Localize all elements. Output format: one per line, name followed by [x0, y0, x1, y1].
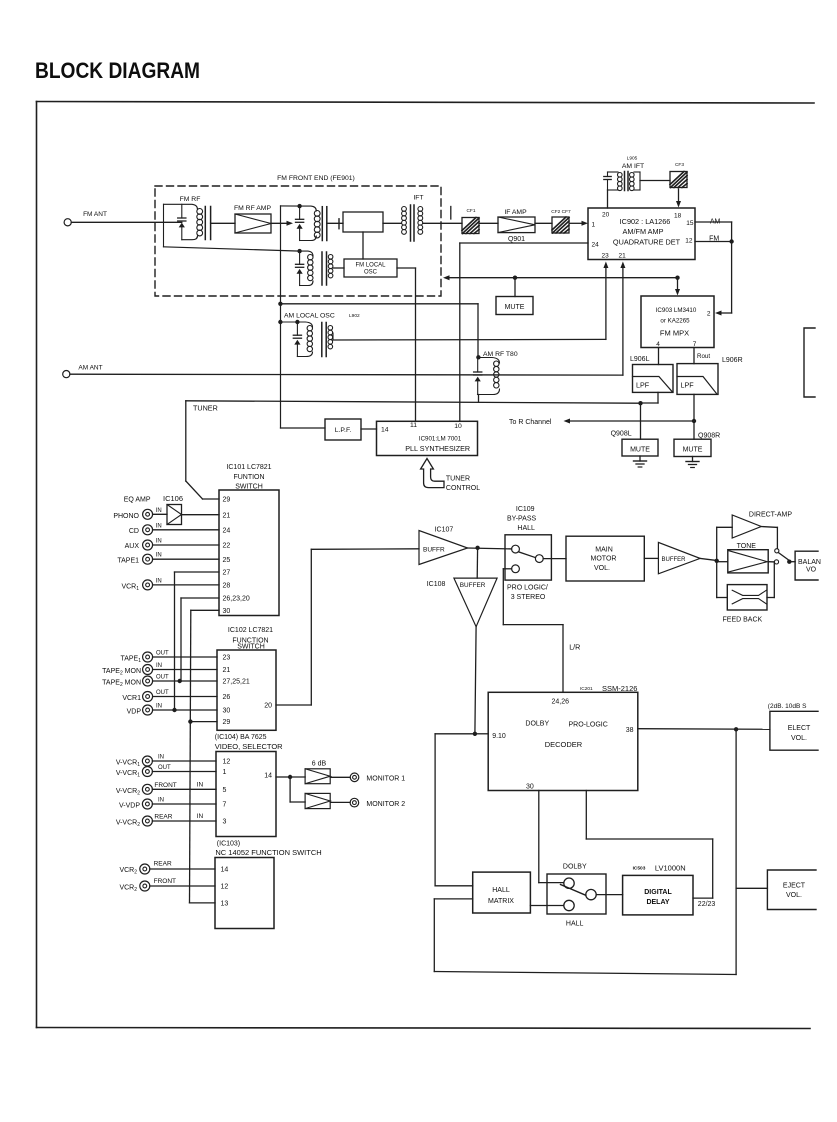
svg-text:EJECT: EJECT	[783, 882, 806, 889]
wire down to IC903 with arrow	[677, 278, 679, 291]
svg-text:VOL.: VOL.	[791, 735, 807, 742]
svg-text:AUX: AUX	[125, 543, 140, 550]
core bars AM LOCAL OSC	[321, 323, 323, 357]
svg-text:3: 3	[223, 819, 227, 826]
svg-text:TUNER: TUNER	[446, 476, 470, 483]
svg-text:20: 20	[264, 703, 272, 710]
TUNER CONTROL arrow	[421, 459, 444, 488]
svg-text:IN: IN	[156, 539, 162, 545]
IC903 FM MPX box	[641, 296, 714, 348]
svg-text:IN: IN	[158, 755, 164, 761]
svg-text:Q908R: Q908R	[698, 433, 720, 440]
wire IC902 pin23 to AM LOCAL OSC	[605, 265, 607, 339]
svg-text:REAR: REAR	[154, 814, 172, 821]
svg-text:OUT: OUT	[156, 690, 169, 696]
wire FM ANT to FM RF tank	[71, 221, 182, 223]
wire CF2 to IC902 pin1 with arrow	[570, 222, 584, 224]
svg-text:OSC: OSC	[364, 270, 378, 276]
svg-text:OUT: OUT	[156, 675, 169, 681]
FEED BACK loop wires	[716, 561, 718, 598]
wire tank2 to mixer box	[327, 222, 343, 224]
wire decoder pin38 to ELECT VOL	[638, 728, 770, 731]
svg-text:21: 21	[223, 513, 231, 520]
svg-text:23: 23	[602, 253, 610, 260]
svg-text:21: 21	[223, 667, 231, 674]
svg-text:IN: IN	[197, 782, 204, 789]
ground Q908L	[639, 456, 641, 461]
wire VDP in	[153, 709, 217, 711]
svg-text:To R Channel: To R Channel	[509, 419, 552, 426]
partial box right edge	[804, 328, 815, 397]
coupling cap tank2 out	[338, 219, 340, 229]
wire node to HALL MATRIX input1	[435, 733, 475, 735]
jack MONITOR 2	[350, 798, 359, 807]
svg-text:MAIN: MAIN	[595, 547, 613, 554]
svg-text:MUTE: MUTE	[683, 447, 703, 454]
svg-text:DIRECT-AMP: DIRECT-AMP	[749, 512, 793, 519]
svg-text:FM LOCAL: FM LOCAL	[355, 263, 386, 269]
stray mark near CF1	[450, 207, 452, 220]
svg-text:7: 7	[693, 341, 697, 348]
wire VCR2 rear to pin14	[150, 868, 215, 870]
wire FM RF AMP to tank2 with arrow	[271, 222, 289, 224]
IC902 LA1266 AM/FM AMP box	[588, 208, 695, 260]
svg-text:EQ AMP: EQ AMP	[124, 497, 151, 504]
svg-text:IC903 LM3410: IC903 LM3410	[656, 307, 697, 314]
svg-text:HALL: HALL	[492, 887, 510, 894]
wire V-VCR2 front	[152, 788, 216, 790]
svg-text:FEED BACK: FEED BACK	[723, 617, 763, 624]
svg-text:12: 12	[223, 759, 231, 766]
svg-text:LV1000N: LV1000N	[655, 864, 686, 873]
svg-text:IC503: IC503	[633, 865, 646, 871]
wire TAPE2 MON out	[153, 680, 217, 682]
svg-text:22: 22	[223, 543, 231, 550]
svg-text:38: 38	[626, 727, 634, 734]
svg-text:NC 14052 FUNCTION SWITCH: NC 14052 FUNCTION SWITCH	[215, 848, 321, 857]
wire IF AMP to CF2	[535, 222, 552, 224]
wire HALL MATRIX out	[530, 905, 563, 907]
svg-text:24: 24	[592, 242, 600, 249]
wire IC107 out to IC109	[468, 547, 512, 550]
svg-text:PHONO: PHONO	[113, 513, 139, 520]
svg-text:IC109: IC109	[516, 506, 535, 513]
svg-text:BUFFER: BUFFER	[662, 557, 687, 563]
svg-text:23: 23	[223, 655, 231, 662]
svg-text:IC902 : LA1266: IC902 : LA1266	[620, 217, 671, 226]
svg-text:FRONT: FRONT	[154, 878, 176, 885]
svg-text:REAR: REAR	[154, 861, 172, 868]
wire AM ANT to IC902 pin21	[70, 373, 623, 376]
svg-text:26: 26	[223, 694, 231, 701]
wire PHONO to IC106	[153, 513, 167, 515]
svg-text:28: 28	[223, 583, 231, 590]
svg-text:MUTE: MUTE	[505, 304, 525, 311]
svg-text:DELAY: DELAY	[646, 899, 669, 906]
svg-text:IC107: IC107	[435, 527, 454, 534]
switch lever dolby	[561, 885, 586, 896]
secondary coil AM LOCAL OSC	[328, 326, 333, 331]
wire tank3 to FM LOCAL OSC	[333, 267, 344, 269]
svg-text:FM FRONT END (FE901): FM FRONT END (FE901)	[277, 175, 355, 182]
svg-text:22/23: 22/23	[698, 901, 716, 908]
svg-text:1: 1	[592, 222, 596, 229]
svg-text:ELECT: ELECT	[788, 725, 811, 732]
FEED BACK box	[727, 585, 767, 610]
wire IC109 common to MAIN MOTOR VOL	[543, 558, 566, 560]
svg-text:VCR1: VCR1	[122, 695, 141, 702]
svg-text:27,25,21: 27,25,21	[223, 679, 250, 686]
wire TAPE1 to pin25	[153, 558, 219, 560]
wire pin29	[190, 721, 217, 723]
svg-text:VIDEO, SELECTOR: VIDEO, SELECTOR	[215, 742, 283, 751]
svg-text:24,26: 24,26	[552, 699, 570, 706]
EJECT VOL box	[767, 870, 816, 910]
svg-text:IC108: IC108	[427, 581, 446, 588]
svg-text:12: 12	[685, 238, 693, 245]
wire LPF to PLL pin14	[361, 428, 377, 430]
svg-text:FM ANT: FM ANT	[83, 211, 107, 218]
svg-text:BUFFER: BUFFER	[460, 582, 486, 589]
wire FM out down to IC903 pin2	[731, 242, 733, 314]
svg-text:L906L: L906L	[630, 356, 650, 363]
svg-text:IN: IN	[156, 579, 162, 585]
wire MAIN VOL to buffer	[644, 557, 658, 559]
wire AUX to pin22	[153, 544, 219, 546]
svg-text:TAPE1: TAPE1	[117, 558, 139, 565]
wire pin27 to VDP bus	[175, 571, 220, 573]
wire TAPE2 MON in	[153, 669, 217, 671]
BALANCE VOL box (cut)	[795, 551, 818, 580]
svg-text:(IC104) BA 7625: (IC104) BA 7625	[215, 734, 267, 741]
wire VCR1 to pin28	[153, 584, 219, 586]
wire down to monitor2 amp	[289, 777, 291, 802]
wire TAPE1 out	[153, 656, 217, 658]
TUNER wire down to IC101 pin29	[185, 401, 187, 481]
wire IC104 pin14 to monitor amps	[276, 776, 290, 778]
svg-text:OUT: OUT	[158, 765, 171, 771]
wire mixer to FM LOCAL OSC	[362, 232, 364, 259]
svg-text:VOL.: VOL.	[594, 565, 610, 572]
svg-text:14: 14	[221, 867, 229, 874]
svg-text:HALL: HALL	[566, 920, 584, 927]
wire IC108 out down to decoder node	[475, 627, 476, 734]
wire CF1 to IF AMP	[479, 222, 498, 224]
svg-text:FM RF: FM RF	[180, 196, 201, 203]
svg-text:or KA2265: or KA2265	[660, 318, 690, 325]
wire VCR2 front to pin12	[150, 885, 215, 887]
wire pin30 long bus	[191, 609, 219, 611]
svg-text:IN: IN	[197, 813, 204, 820]
svg-text:26,23,20: 26,23,20	[223, 596, 250, 603]
wire buffer to tone node	[700, 558, 717, 560]
svg-text:IN: IN	[156, 524, 162, 530]
svg-text:CF1: CF1	[466, 208, 475, 214]
tank3 FM local osc tank	[297, 249, 301, 253]
svg-text:30: 30	[223, 608, 231, 615]
svg-text:10: 10	[454, 423, 462, 430]
svg-text:BY-PASS: BY-PASS	[507, 516, 537, 523]
svg-text:2: 2	[707, 311, 711, 318]
svg-text:12: 12	[221, 884, 229, 891]
svg-text:18: 18	[674, 213, 682, 220]
wire AM IFT to CF3	[640, 180, 670, 182]
svg-text:BLOCK DIAGRAM: BLOCK DIAGRAM	[35, 58, 200, 83]
svg-text:L905: L905	[627, 156, 638, 162]
svg-text:FUNTION: FUNTION	[233, 474, 264, 481]
FM LOCAL OSC box	[344, 259, 397, 277]
dashed box FM FRONT END (FE901)	[155, 186, 441, 296]
svg-text:30: 30	[223, 708, 231, 715]
svg-text:MONITOR 1: MONITOR 1	[366, 776, 405, 783]
svg-text:AM/FM AMP: AM/FM AMP	[623, 227, 664, 236]
svg-text:29: 29	[223, 497, 231, 504]
svg-text:25: 25	[223, 557, 231, 564]
svg-text:FRONT: FRONT	[154, 782, 176, 789]
wire VCR1 out	[153, 696, 217, 698]
svg-text:L906R: L906R	[722, 357, 743, 364]
svg-text:VOL.: VOL.	[786, 892, 802, 899]
jack MONITOR 1	[350, 773, 359, 782]
svg-text:5: 5	[223, 787, 227, 794]
vertical bus tank2 top to LPF	[280, 206, 282, 428]
svg-text:L.P.F.: L.P.F.	[335, 427, 352, 434]
wire IC109 L/R out to decoder	[503, 568, 511, 570]
svg-text:V-VDP: V-VDP	[119, 803, 140, 810]
secondary coil tank3	[328, 254, 333, 259]
svg-text:VO: VO	[806, 567, 817, 574]
wire to MONITOR 1 jack	[330, 776, 350, 778]
wire V-VDP in	[152, 803, 216, 805]
switch lever	[518, 552, 535, 558]
wire IC108 node to decoder 9.10	[473, 732, 477, 736]
svg-text:24: 24	[223, 528, 231, 535]
IC901 PLL SYNTHESIZER box	[377, 421, 478, 455]
svg-text:VDP: VDP	[127, 709, 142, 716]
wire CD to pin24	[153, 529, 219, 531]
svg-text:MATRIX: MATRIX	[488, 898, 514, 905]
svg-text:L902: L902	[349, 313, 360, 319]
svg-text:LPF: LPF	[681, 381, 695, 390]
wire AM RF T80 to tuner line	[478, 395, 480, 403]
svg-text:29: 29	[223, 719, 231, 726]
svg-text:CONTROL: CONTROL	[446, 485, 480, 492]
svg-text:DOLBY: DOLBY	[563, 863, 587, 870]
FM ANT terminal	[64, 219, 71, 226]
svg-text:CF3: CF3	[675, 162, 684, 168]
border frame bottom	[37, 1028, 811, 1029]
svg-text:MONITOR 2: MONITOR 2	[366, 801, 405, 808]
tank2 FM mixer input	[281, 205, 300, 207]
buffer (line amp)	[658, 542, 700, 573]
svg-text:9.10: 9.10	[492, 733, 506, 740]
svg-text:Q901: Q901	[508, 236, 525, 243]
wire pin 26,23,20 bus	[181, 597, 219, 599]
svg-text:CD: CD	[129, 528, 139, 535]
MUTE box (FM)	[514, 278, 516, 297]
svg-text:L/R: L/R	[569, 643, 580, 652]
wire DIRECT-AMP out to switch	[761, 526, 777, 529]
wire node down to eject/hall loop	[735, 729, 737, 974]
wire IC903 pin4 to LPF L	[658, 348, 660, 365]
svg-text:21: 21	[619, 253, 627, 260]
svg-text:IN: IN	[156, 663, 162, 669]
wire V-VCR1 out	[152, 771, 216, 773]
amplifier 6dB monitor2	[305, 793, 330, 808]
border frame top	[37, 102, 815, 104]
svg-text:(IC103): (IC103)	[217, 840, 240, 847]
svg-text:IN: IN	[156, 508, 162, 514]
svg-text:CF2 CF7: CF2 CF7	[551, 209, 571, 215]
svg-text:MOTOR: MOTOR	[591, 556, 617, 563]
LPF box (PLL)	[325, 419, 361, 440]
svg-text:QUADRATURE DET: QUADRATURE DET	[613, 238, 681, 247]
svg-text:Q908L: Q908L	[611, 431, 632, 438]
wire AM LOSC top to AM RF T80	[280, 303, 478, 305]
core bars FM RF	[204, 207, 206, 240]
svg-text:IC102 LC7821: IC102 LC7821	[228, 627, 273, 634]
wire to MONITOR 2 jack	[330, 801, 350, 803]
HALL MATRIX box	[473, 872, 531, 913]
mixer box (unlabeled)	[343, 212, 383, 232]
svg-text:30: 30	[526, 783, 534, 790]
ELECT VOL box (cut)	[770, 711, 818, 750]
svg-text:20: 20	[602, 212, 610, 219]
svg-text:PRO-LOGIC: PRO-LOGIC	[569, 721, 608, 728]
wire V-VCR1 in	[152, 760, 216, 762]
svg-text:7: 7	[223, 802, 227, 809]
AFC wire to FM front end	[447, 277, 678, 279]
switch lever to balance	[778, 553, 789, 561]
svg-text:PLL SYNTHESIZER: PLL SYNTHESIZER	[405, 444, 470, 453]
svg-text:TONE: TONE	[737, 543, 757, 550]
wire to BALANCE VOL	[789, 561, 795, 563]
svg-text:BUFFR: BUFFR	[423, 547, 445, 554]
svg-text:DOLBY: DOLBY	[525, 721, 549, 728]
wire node to DIRECT-AMP	[716, 527, 718, 561]
wire V-VCR2 rear	[152, 820, 216, 822]
wire LPF L output to Q908L	[657, 392, 659, 403]
svg-text:AM IFT: AM IFT	[622, 163, 644, 170]
svg-text:LPF: LPF	[636, 381, 650, 390]
MAIN MOTOR VOL box	[566, 536, 644, 581]
svg-text:IF AMP: IF AMP	[504, 209, 527, 216]
svg-text:FM MPX: FM MPX	[660, 329, 689, 338]
svg-text:14: 14	[264, 773, 272, 780]
wire TONE out to switch	[768, 561, 774, 563]
svg-text:DECODER: DECODER	[545, 740, 583, 749]
svg-text:IC101 LC7821: IC101 LC7821	[226, 464, 271, 471]
wire tank1 to FM RF AMP	[211, 222, 235, 224]
svg-text:Rout: Rout	[697, 353, 710, 360]
To R Channel wire	[568, 420, 694, 422]
wire switch common to DIGITAL DELAY	[596, 894, 622, 896]
core bars tank3	[321, 252, 323, 285]
svg-text:SWITCH: SWITCH	[237, 643, 265, 650]
svg-text:3 STEREO: 3 STEREO	[511, 594, 546, 601]
svg-text:HALL: HALL	[517, 525, 535, 532]
AM ANT terminal	[63, 371, 70, 378]
svg-text:27: 27	[223, 570, 231, 577]
ground Q908R	[692, 457, 694, 462]
wire decoder out to digital delay 22/23	[585, 791, 587, 840]
svg-text:AM ANT: AM ANT	[78, 365, 102, 372]
svg-text:BALAN: BALAN	[798, 559, 821, 566]
wire IC102 pin20 to IC107	[276, 704, 311, 706]
wire decoder pin30 to DOLBY contact	[538, 791, 540, 883]
svg-text:OUT: OUT	[156, 651, 169, 657]
svg-text:6 dB: 6 dB	[312, 761, 327, 768]
svg-text:IC901:LM 7001: IC901:LM 7001	[419, 436, 462, 443]
svg-text:PRO LOGIC/: PRO LOGIC/	[507, 585, 548, 592]
wire IFT out to CF1	[423, 222, 462, 224]
svg-text:(2dB. 10dB S: (2dB. 10dB S	[768, 703, 807, 710]
wire AM IFT to IC902 pin20	[607, 190, 609, 208]
wire node to TONE	[717, 561, 728, 563]
svg-text:11: 11	[410, 422, 417, 429]
core bars tank2	[321, 207, 323, 241]
wire IC107 node down to IC108	[476, 548, 478, 578]
border frame left	[36, 102, 38, 1028]
svg-text:AM LOCAL OSC: AM LOCAL OSC	[284, 313, 335, 320]
wire LPF R output down	[693, 394, 695, 439]
svg-text:13: 13	[221, 901, 229, 908]
svg-text:14: 14	[381, 427, 389, 434]
wire IC902 pin24 to PLL pin10	[460, 242, 588, 244]
wire IC903 pin7 to LPF R	[693, 348, 695, 364]
svg-text:MUTE: MUTE	[630, 447, 650, 454]
svg-text:TUNER: TUNER	[193, 404, 218, 413]
svg-text:IC106: IC106	[163, 494, 183, 503]
wire FM LOCAL OSC to PLL pin11	[397, 267, 416, 269]
svg-text:FM RF AMP: FM RF AMP	[234, 205, 271, 212]
svg-text:DIGITAL: DIGITAL	[644, 889, 672, 896]
svg-text:IC201: IC201	[580, 686, 593, 692]
svg-text:IN: IN	[156, 704, 162, 710]
bus wire tank bottoms	[164, 247, 300, 251]
svg-text:15: 15	[686, 220, 694, 227]
svg-text:IN: IN	[158, 798, 164, 804]
wire CF3 to IC902 pin18 with arrow	[678, 189, 680, 202]
svg-text:IFT: IFT	[413, 195, 423, 202]
svg-text:IN: IN	[156, 553, 162, 559]
wire bus to pin13	[190, 902, 216, 904]
svg-text:1: 1	[223, 769, 227, 776]
wire IC106 to pin21	[182, 514, 220, 516]
